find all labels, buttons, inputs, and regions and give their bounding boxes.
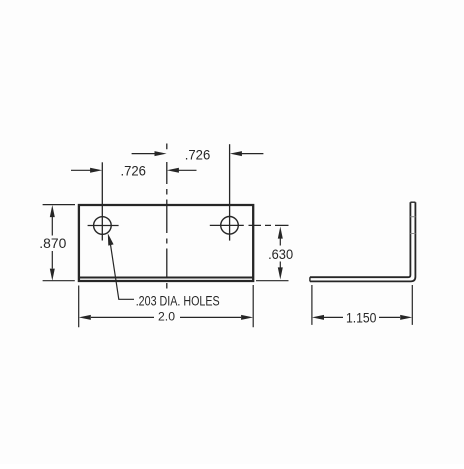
leader from .203 DIA. HOLES to left hole — [110, 238, 135, 299]
.630 bottom arrow — [278, 267, 283, 279]
side view: L profile outer surface — [310, 202, 416, 281]
svg-text:2.0: 2.0 — [158, 312, 175, 324]
1.150 left arrow — [312, 315, 324, 320]
.870 top arrow — [50, 205, 55, 217]
2.0 left arrow — [79, 315, 91, 320]
svg-text:.870: .870 — [39, 236, 66, 251]
dim 1.150 dimension line — [324, 316, 400, 318]
right hole — [221, 217, 239, 235]
dim .630 dimension line — [279, 239, 281, 269]
right hole vertical centerline / extension line for .726 — [229, 144, 231, 240]
svg-text:.630: .630 — [268, 246, 293, 262]
dim 2.0 dimension line — [91, 316, 241, 318]
svg-text:1.150: 1.150 — [346, 310, 377, 325]
.630 top arrow — [278, 227, 283, 239]
left hole horizontal centerline — [88, 225, 119, 227]
arrow tip right at left hole ext line — [90, 168, 102, 173]
right hole horizontal centerline — [210, 224, 244, 226]
vertical center line between holes (dashed) — [166, 144, 168, 289]
dim .870 dimension line — [51, 217, 53, 269]
svg-text:.726: .726 — [185, 146, 211, 162]
arrow tip right at centerline — [155, 151, 167, 156]
side view: hidden hole marks — [410, 217, 415, 234]
left hole vertical centerline / extension line for .726 — [101, 162, 103, 240]
right hole dash-dot centerline extending right to .630 — [249, 224, 289, 226]
left hole — [94, 217, 112, 235]
.630 bottom extension line — [256, 280, 289, 282]
svg-text:.726: .726 — [120, 163, 146, 179]
2.0 right arrow — [241, 315, 253, 320]
arrow tip left at right hole ext line — [230, 151, 242, 156]
arrow tip left at centerline — [167, 168, 179, 173]
dim lower .726 dimension line (left hole to center) — [71, 169, 197, 171]
side view: L profile inner surface — [310, 202, 411, 277]
side view: left end cap — [309, 277, 311, 281]
front view: bend tangent line — [80, 277, 254, 279]
dim .870 extension line top — [43, 204, 75, 206]
.870 bottom arrow — [50, 269, 55, 281]
dim .870 extension line bottom — [43, 280, 75, 282]
dim upper .726 dimension line (center to right hole) — [132, 153, 264, 155]
dim 1.150 extension lines — [312, 285, 412, 325]
side view: top end cap — [410, 201, 415, 203]
svg-text:.203 DIA. HOLES: .203 DIA. HOLES — [136, 293, 220, 308]
leader arrowhead — [108, 233, 114, 245]
1.150 right arrow — [400, 315, 412, 320]
dim 2.0 extension lines — [79, 285, 254, 327]
front view: bracket face outline — [79, 205, 253, 281]
